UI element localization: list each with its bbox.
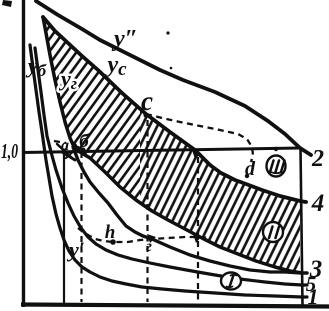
svg-text:г: г (146, 238, 152, 255)
svg-text:y′: y′ (66, 237, 85, 262)
svg-text:1: 1 (308, 284, 319, 309)
svg-text:1,0: 1,0 (1, 139, 18, 163)
svg-text:4: 4 (311, 190, 325, 217)
svg-text:y″: y″ (111, 26, 138, 52)
svg-text:2: 2 (311, 146, 324, 172)
svg-text:а: а (61, 137, 69, 154)
svg-text:б: б (79, 131, 90, 152)
svg-text:d: d (245, 158, 256, 180)
svg-text:c: c (141, 86, 153, 116)
svg-text:h: h (105, 222, 116, 243)
